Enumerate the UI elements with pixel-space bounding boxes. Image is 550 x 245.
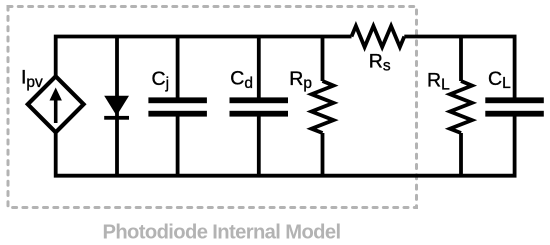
wire: Cd branch bottom: [257, 117, 261, 176]
diode D triangle: [104, 96, 129, 116]
resistor RL (vertical zigzag): [450, 81, 472, 133]
svg-text:CL: CL: [488, 68, 511, 92]
svg-text:RL: RL: [427, 69, 450, 93]
capacitor Cd plates: [230, 97, 289, 103]
wire: top-left corner and top rail: [56, 37, 352, 77]
resistor Rs (horizontal zigzag): [352, 26, 405, 47]
wire: RL branch bottom: [459, 133, 463, 176]
wire: Cj branch bottom: [176, 117, 180, 176]
svg-text:Photodiode Internal Model: Photodiode Internal Model: [103, 222, 341, 244]
wire: top rail right of Rs to top-right corner: [404, 37, 514, 98]
current source arrow head: [50, 88, 62, 101]
dashed boundary box: [8, 7, 417, 208]
svg-text:Ipv: Ipv: [21, 67, 43, 91]
wire: Cd branch top: [257, 37, 261, 98]
diode D cathode bar: [104, 116, 129, 120]
capacitor Cj plates: [148, 97, 207, 103]
wire: right side below CL, bottom rail, up to Ipv bottom: [56, 117, 515, 176]
wire: diode branch: [115, 37, 119, 176]
wire: RL branch top: [459, 37, 463, 82]
svg-text:Cd: Cd: [230, 68, 253, 92]
wire: Cj branch top: [176, 37, 180, 98]
current source arrow shaft: [54, 99, 58, 124]
wire: Rp branch top: [321, 37, 325, 82]
current source I_pv (diamond): [28, 76, 84, 132]
svg-text:Rs: Rs: [369, 50, 391, 74]
resistor Rp (vertical zigzag): [312, 81, 334, 133]
svg-text:Rp: Rp: [289, 68, 312, 92]
capacitor CL plates: [485, 97, 544, 103]
wire: Rp branch bottom: [321, 133, 325, 176]
svg-text:Cj: Cj: [152, 68, 170, 92]
